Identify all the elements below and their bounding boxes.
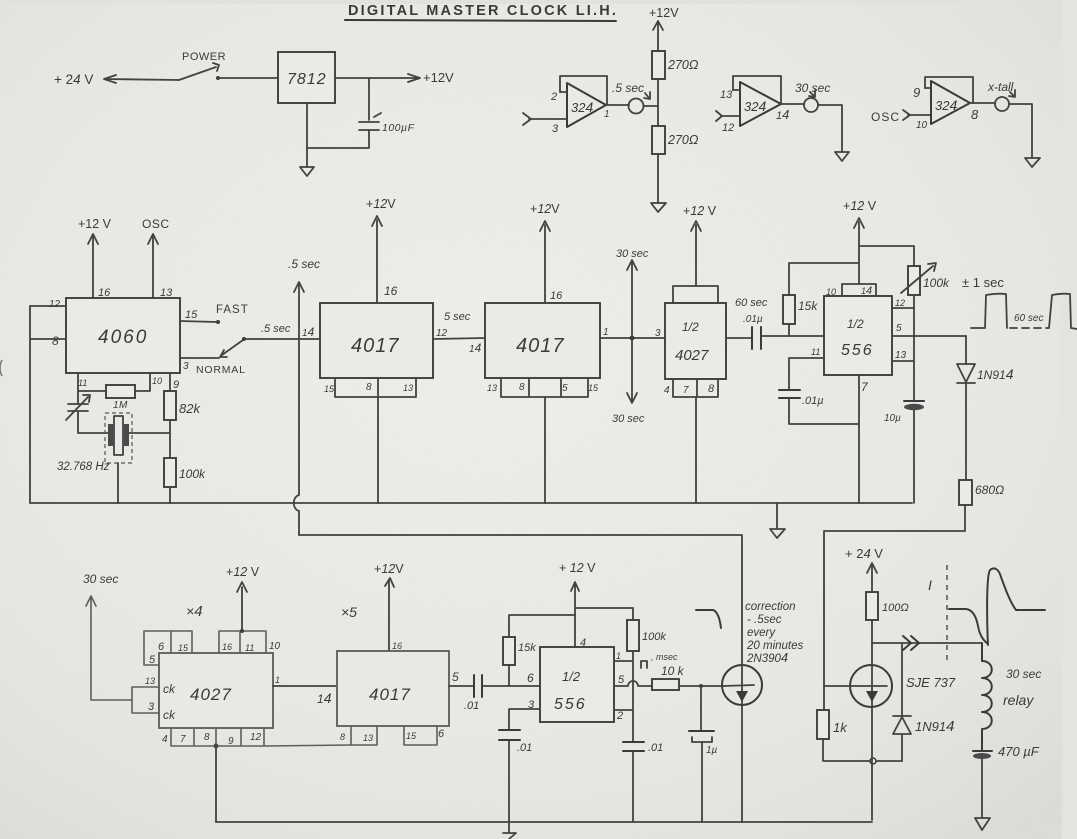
ground relay [975,818,990,830]
wire +12V to 100k2 [575,608,633,620]
svg-text:± 1 sec: ± 1 sec [962,275,1004,290]
svg-text:+12 V: +12 V [78,217,112,231]
wire base to 1k [823,686,825,710]
IC U 4060 box [66,298,180,373]
wire 10k to transistor base [679,685,723,687]
wire +12V down to R 270 [653,21,663,51]
ground bus stub [776,503,778,529]
wire 1u to bottom bus [701,742,703,822]
capacitor C 10u [904,400,924,402]
svg-text:×4: ×4 [186,603,203,620]
svg-text:1k: 1k [833,720,848,735]
svg-text:1N914: 1N914 [977,366,1014,382]
svg-text:+ 24 V: + 24 V [845,546,883,561]
svg-text:270Ω: 270Ω [667,58,699,72]
svg-text:324: 324 [571,99,593,115]
svg-text:1N914: 1N914 [915,718,954,735]
svg-text:8: 8 [366,382,372,393]
IC U 4017 third box [337,651,449,726]
svg-text:14: 14 [469,341,482,355]
resistor R 270ohm lower [652,126,665,154]
trimmer capacitor [66,395,90,420]
svg-text:+ 24 V: + 24 V [54,72,93,87]
svg-text:8: 8 [204,732,210,743]
wire +12V down to 556 tab [854,218,864,284]
ground power section [300,167,314,176]
svg-text:1µ: 1µ [706,745,718,756]
scan mark left edge [0,360,2,376]
capacitor C 100uF [359,113,381,130]
ground bottom tick [503,822,516,839]
IC U 556 half box second [540,647,614,722]
svg-text:20 minutes: 20 minutes [746,640,804,652]
svg-text:7: 7 [683,385,689,396]
svg-text:5 sec: 5 sec [444,311,471,323]
svg-text:16: 16 [384,284,398,298]
decay curve glyph [696,610,721,628]
svg-text:12: 12 [895,298,905,308]
capacitor C .01 pin2 [623,742,644,751]
waveform relay current [949,568,1045,645]
pin 8 output [970,102,995,104]
op-amp U1 324 (.5 sec) [567,83,606,127]
pin 3 input chevron [523,113,567,125]
svg-text:15: 15 [178,643,189,653]
wire +12V pin16 4017c [385,578,394,651]
wire 4017a ground drop [377,397,379,503]
svg-text:12: 12 [250,732,262,743]
svg-text:8: 8 [519,382,525,393]
svg-text:11: 11 [811,347,820,357]
node ground junction dot [214,744,219,749]
wire switch to 4017 pin 14 [244,338,320,340]
node emitter junction open dot [870,758,876,764]
ground mid bus [770,529,785,538]
wire switch to 7812 [218,77,278,79]
svg-text:9: 9 [228,736,234,747]
wire 30 sec tap [627,260,637,403]
capacitor C 1u [689,730,714,732]
wire 15k to +12V rail [789,263,859,295]
svg-text:15k: 15k [798,299,818,313]
wire +12V down 556b pin4 [571,582,579,647]
pin 1 output [606,104,629,106]
switch lever to .5sec [220,340,243,357]
wire feedback loop U1 [560,76,607,105]
potentiometer R 100k [908,266,920,295]
wire 30 sec arrow to ck [86,596,132,700]
resistor R 10k [652,679,679,690]
svg-text:13: 13 [487,383,497,393]
svg-text:SJE 737: SJE 737 [906,675,956,690]
svg-text:ck: ck [163,708,176,722]
wire 7812 ground pin [306,103,308,167]
svg-text:82k: 82k [179,401,201,416]
wire to ground [657,154,659,203]
wire .5 sec vertical tap [294,282,304,535]
svg-text:relay: relay [1003,692,1034,708]
svg-text:14: 14 [302,325,315,339]
svg-text:4017: 4017 [351,335,400,357]
svg-text:.5 sec: .5 sec [261,323,291,335]
svg-text:9: 9 [913,85,920,100]
resistor R 82k [169,373,171,391]
svg-text:270Ω: 270Ω [667,133,699,147]
wire +24V down [867,563,877,592]
diode D 1N914 second [893,643,911,761]
svg-text:10: 10 [269,641,281,652]
svg-text:6: 6 [158,641,165,653]
wire +24V arrow [104,75,179,83]
svg-text:1/2: 1/2 [847,317,864,331]
svg-text:.01: .01 [464,700,479,712]
resistor R 100ohm [866,592,878,620]
wire pin11 down [77,373,79,403]
wire +12V pin16 4017a [372,216,382,303]
switch contact node [216,76,220,80]
wire +12V to pot branch [859,246,914,266]
svg-text:every: every [747,627,776,639]
svg-text:16: 16 [222,642,232,652]
svg-text:3: 3 [183,361,189,372]
svg-text:30 sec: 30 sec [616,248,649,260]
svg-text:+12V: +12V [423,70,454,85]
node output circle U2 [804,98,818,112]
svg-text:11: 11 [245,643,254,653]
svg-text:556: 556 [841,342,874,359]
svg-text:5: 5 [452,670,459,684]
wire 4027b ground drop [215,746,217,822]
wire +12V pin16 4027b [237,582,247,631]
ground bus middle row [30,502,912,504]
svg-text:680Ω: 680Ω [975,483,1004,497]
capacitor C .01 pin3 [499,730,520,740]
svg-text:12: 12 [49,299,61,310]
wire to ground U3 [1009,104,1032,158]
wire +12V pin16 4017b [540,221,550,303]
wire 100k to bus [169,487,171,503]
svg-text:5: 5 [618,674,625,686]
resistor R 270ohm upper [652,51,665,79]
svg-text:1: 1 [604,109,610,120]
capacitor C .01u coupling [752,327,761,349]
wire trimmer to crystal row [78,411,109,433]
ground U3 [1025,158,1040,167]
resistor R 15k second [508,665,510,686]
wire pot chain vertical [913,295,915,401]
relay coil L 30sec [982,643,992,751]
wire cap to 556 pin 8 [761,335,824,337]
wire capacitor to ground rail [307,130,369,148]
wire 4017b ground drop [544,397,546,503]
pin 9 stub [925,87,931,89]
wire collector branch to relay [872,642,982,644]
svg-text:9: 9 [173,379,179,391]
resistor R 1M [78,390,106,392]
svg-text:13: 13 [895,350,907,361]
svg-text:30 sec: 30 sec [83,572,118,586]
wire emitter to bus [871,707,873,820]
svg-text:3: 3 [148,701,155,713]
wire correction feed [299,535,742,665]
wire R270 to junction [657,79,659,126]
pins 8 13 15 6 bottom tabs 4017c [351,726,437,745]
op-amp U2 324 (30 sec) [740,82,781,126]
pin 12 input [716,111,740,121]
svg-text:10: 10 [152,376,162,386]
wire 1M to pin 10 [135,373,150,391]
svg-text:POWER: POWER [182,51,226,63]
title underline [345,20,616,21]
svg-text:8: 8 [52,334,59,348]
svg-text:8: 8 [708,383,715,395]
svg-text:OSC: OSC [871,110,900,124]
svg-text:15: 15 [185,309,198,321]
svg-text:- .5sec: - .5sec [747,614,782,626]
pins 16 11 10 top tabs [219,631,266,653]
pin 14 output [781,103,804,105]
wire pin5 to diode [965,336,967,364]
ground 270 divider [651,203,666,212]
svg-text:30 sec: 30 sec [612,413,645,425]
svg-text:3: 3 [655,328,661,339]
svg-text:15k: 15k [518,642,536,654]
resistor R 100k [164,458,176,487]
resistor R 15k first [788,324,790,336]
svg-text:.01: .01 [648,742,663,754]
wire 100k2 down chain [632,651,634,742]
wire crystal to 82k junction [129,432,170,434]
svg-text:6: 6 [527,671,534,685]
switch lever [179,63,219,80]
svg-text:16: 16 [392,641,402,651]
wire junction to 1u cap [700,686,702,731]
svg-text:.5 sec: .5 sec [612,81,644,95]
svg-text:NORMAL: NORMAL [196,364,246,376]
pins 13 8 5 15 bottom tabs 4017b [501,378,588,397]
IC U 4017 first box [320,303,433,378]
IC U 4027 bottom box [159,653,273,728]
svg-text:15: 15 [406,731,417,741]
svg-text:+12 V: +12 V [683,204,717,218]
svg-text:+12 V: +12 V [226,565,260,579]
resistor R 100k second [627,620,639,651]
svg-text:10: 10 [916,120,928,131]
wire OSC pin 13 [148,234,158,298]
svg-text:13: 13 [720,89,733,101]
wire 15k to +12V rail2 [509,615,575,637]
pins 4 7 8 bottom tabs 4027a [673,379,718,397]
svg-text:4027: 4027 [190,685,232,704]
paper shading [0,0,1077,4]
svg-text:+12V: +12V [530,202,560,216]
wire 1k to emitter junction [823,739,902,761]
wire cap to pin7 line [789,398,859,424]
svg-text:1/2: 1/2 [562,669,581,684]
wire +12V to pin 16 [88,234,98,298]
wire crystal case ground [117,463,119,503]
svg-text:OSC: OSC [142,217,170,231]
svg-text:470 µF: 470 µF [998,744,1040,759]
wire to ground U2 [818,105,842,152]
pins 15 8 13 bottom tabs 4017a [335,378,416,397]
svg-text:7: 7 [180,734,186,745]
svg-text:100µF: 100µF [382,122,415,134]
ground U2 [835,152,849,161]
svg-text:4017: 4017 [369,685,411,704]
svg-text:4: 4 [162,734,168,745]
svg-text:13: 13 [403,383,413,393]
svg-text:1/2: 1/2 [682,320,699,334]
resistor R 1k [817,710,829,739]
wire left pins to ground bus [29,306,31,503]
op-amp U3 324 (x-tall) [931,81,970,124]
svg-text:8: 8 [971,107,979,122]
svg-text:100Ω: 100Ω [882,602,909,614]
svg-text:5: 5 [149,654,156,666]
svg-text:I: I [928,577,932,593]
wire collector from .5sec feed [741,705,743,822]
wire cap to 556b pin6 [482,685,540,687]
svg-text:14: 14 [776,107,789,122]
bus bottom ground [216,821,872,823]
svg-text:+12V: +12V [649,6,679,20]
wire cap to bottom bus [508,740,510,822]
svg-text:+12V: +12V [366,197,396,211]
pin output to cap [726,337,751,339]
capacitor C 470uF [973,750,992,752]
svg-text:3: 3 [552,123,559,135]
svg-text:13: 13 [145,676,155,686]
waveform 60 sec pulses [971,294,1007,328]
svg-text:16: 16 [550,290,563,302]
svg-text:×5: ×5 [341,604,357,620]
wire 680 down to base line [824,505,965,686]
svg-text:10µ: 10µ [884,413,901,424]
svg-text:DIGITAL MASTER CLOCK LI.H.: DIGITAL MASTER CLOCK LI.H. [348,3,618,19]
svg-text:324: 324 [744,98,766,114]
svg-text:100k: 100k [179,467,206,481]
regulator U 7812 box [278,52,335,103]
svg-text:+12 V: +12 V [843,199,877,213]
svg-text:100k: 100k [642,631,666,643]
wire 4027a ground drop [695,397,697,503]
wire feedback loop U2 [733,76,781,104]
svg-text:11: 11 [78,378,87,388]
svg-text:5: 5 [562,383,568,394]
ck input tab [132,687,159,713]
svg-text:13: 13 [363,733,373,743]
node output circle U3 [995,97,1009,111]
svg-text:6: 6 [438,728,445,740]
svg-text:15: 15 [588,383,599,393]
wire cap to ground [981,759,983,818]
svg-text:4017: 4017 [516,335,565,357]
wire 100ohm to transistor [871,620,873,665]
pins 4 7 8 9 12 bottom tabs 4027b [171,728,264,746]
svg-text:ck: ck [163,682,176,696]
svg-text:8: 8 [340,732,345,742]
capacitor C .01u 556a [779,390,800,398]
node junction 30sec [630,336,635,341]
svg-text:100k: 100k [923,276,950,290]
svg-text:32.768 Hz: 32.768 Hz [57,461,110,473]
svg-text:2N3904: 2N3904 [746,650,788,665]
svg-text:+12V: +12V [374,562,404,576]
pin 13 stub [733,89,740,91]
svg-text:10 k: 10 k [661,664,685,678]
crystal X1 32.768Hz [108,424,113,446]
svg-text:60 sec: 60 sec [1014,313,1043,324]
svg-text:12: 12 [722,122,734,134]
wire +12V to 4027 tab [691,221,701,286]
svg-text:2: 2 [616,710,623,722]
IC U 556 half box first [842,284,876,296]
wire feedback loop U3 [925,77,973,103]
wire cap2 to bottom bus [632,751,634,822]
svg-text:7812: 7812 [287,71,327,88]
wire OSC input chevron [903,110,931,120]
svg-text:556: 556 [554,696,587,713]
wire output to capacitor [368,78,370,120]
svg-text:14: 14 [861,285,872,297]
svg-text:FAST: FAST [216,304,249,316]
node output circle U1 [629,99,644,114]
transistor Q SJE737 [850,665,892,707]
svg-text:14: 14 [317,690,332,706]
svg-text:12: 12 [436,328,448,339]
svg-text:4: 4 [664,385,670,396]
svg-text:60 sec: 60 sec [735,297,768,309]
svg-text:324: 324 [935,97,957,113]
svg-text:, msec: , msec [651,652,678,662]
svg-text:4060: 4060 [98,327,148,348]
svg-text:.01µ: .01µ [743,314,763,325]
pin 2 stub [560,91,567,93]
pins 6 15 5 top tabs [144,631,192,665]
IC U 4017 second box [485,303,600,378]
capacitor C .01 coupling2 [474,675,482,697]
svg-text:1: 1 [616,651,621,661]
svg-text:correction: correction [745,601,796,613]
diode arrows SJE [903,636,919,650]
svg-text:10: 10 [826,287,836,297]
svg-text:1: 1 [603,327,609,338]
resistor R 680ohm [959,480,972,505]
node pulse msec label [641,661,647,668]
wire 7812 output +12V [335,74,420,82]
svg-text:.01µ: .01µ [802,395,824,407]
transistor Q 2N3904 correction [722,665,762,705]
svg-text:30 sec: 30 sec [795,81,830,95]
wire circle to divider [644,105,658,107]
wire tabs to 4017c tabs [264,745,352,746]
svg-text:1: 1 [275,675,280,685]
diode D 1N914 first [957,364,975,383]
wire base from 680 line [824,685,851,687]
node junction 1u [699,684,703,688]
svg-text:.5 sec: .5 sec [288,257,320,271]
IC U 4027 half box [673,286,718,303]
svg-text:4027: 4027 [675,347,709,364]
svg-text:+ 12 V: + 12 V [559,561,596,575]
wire 10u to bus [913,410,915,503]
wire diode to 680 [965,383,967,480]
svg-text:1M: 1M [113,400,128,411]
wire 82k to 100k [169,420,171,458]
svg-text:15: 15 [324,384,335,394]
svg-text:30 sec: 30 sec [1006,667,1041,681]
